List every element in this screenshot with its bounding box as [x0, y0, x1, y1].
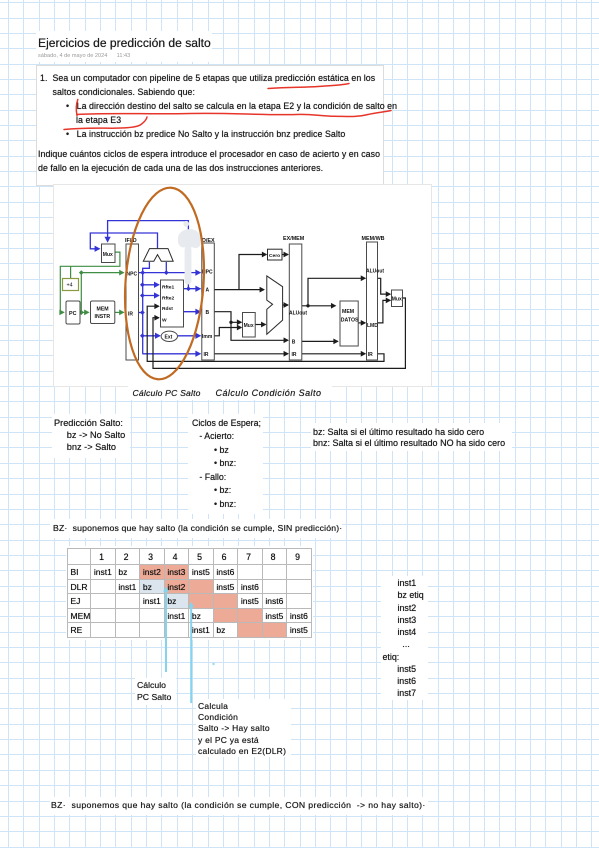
- cyan annotation line 1: [165, 589, 167, 672]
- wire black B to EXMEM B: [231, 322, 288, 340]
- svg-text:+4: +4: [67, 283, 73, 289]
- svg-text:IR: IR: [368, 352, 373, 358]
- cyan annotation line 2: [190, 605, 192, 704]
- bottom line: [51, 800, 426, 810]
- junction green at NPC branch: [79, 270, 84, 275]
- junction black ALUout: [306, 304, 309, 307]
- wire black IR feedback to Rdst: [147, 306, 384, 361]
- white box code listing: [381, 576, 428, 700]
- white box table: [66, 546, 313, 640]
- wire black LMD to mux3: [378, 300, 391, 323]
- svg-text:Ext: Ext: [165, 335, 173, 341]
- box PC: [66, 301, 80, 324]
- wire black ID/EX IR to EXMEM IR: [214, 353, 288, 355]
- pipeline register ID/EX: [202, 243, 215, 360]
- bz salta block: [313, 427, 484, 437]
- wire black ALUout bypass to MEMWB: [308, 278, 365, 306]
- red underline direccion destino ... condición de salto en: [77, 111, 391, 117]
- white box prediccion block: [52, 414, 130, 458]
- wire black mux3 out W feedback: [153, 298, 405, 368]
- svg-text:Imm: Imm: [202, 334, 213, 340]
- pipeline register EX/MEM: [289, 244, 302, 360]
- adder NPC+Imm: [143, 249, 173, 262]
- wire blue bus to Ext: [142, 335, 159, 337]
- annotation 1: [137, 680, 171, 704]
- junction blue NPC-bus: [140, 270, 145, 275]
- svg-text:ALUout: ALUout: [366, 269, 384, 275]
- mux U2 ALU operand mux: [243, 313, 256, 338]
- wire blue bus to ID/EX IR: [142, 353, 200, 355]
- svg-text:LMD: LMD: [367, 323, 378, 329]
- junction blue bus Rfte1: [140, 282, 145, 287]
- red underline la etapa E3: [64, 117, 147, 130]
- wire blue bus to Rfte2: [142, 295, 158, 297]
- mux U1 PC mux: [102, 244, 116, 263]
- box MEM DATOS: [340, 301, 358, 346]
- wire blue adder right input: [165, 262, 167, 273]
- white box table header line: [50, 519, 342, 538]
- wire blue B out: [184, 311, 201, 313]
- pipeline register MEM/WB: [367, 242, 378, 360]
- wire blue NPC out to ID/EX NPC: [139, 272, 201, 274]
- white box annotation 2: [196, 699, 291, 757]
- svg-text:MEM: MEM: [342, 309, 354, 315]
- diagram captions: [133, 388, 201, 398]
- paragraph block: [40, 71, 375, 100]
- wire green PC up to NPC: [81, 273, 123, 313]
- wire blue Ext to Imm: [178, 335, 200, 337]
- ciclos block: [192, 417, 261, 512]
- wire green PC to MEM INSTR: [80, 311, 88, 313]
- white box ciclos block: [188, 414, 263, 514]
- junction blue A line: [186, 286, 191, 291]
- svg-text:Mux: Mux: [244, 323, 254, 329]
- svg-text:Mux: Mux: [392, 297, 402, 303]
- wire black mux2 out to ALU: [255, 324, 265, 326]
- wire green MEM INSTR to IR: [115, 311, 124, 313]
- svg-text:DATOS: DATOS: [341, 318, 359, 324]
- svg-text:MEM: MEM: [97, 307, 109, 313]
- wire blue adder out to PC-mux left: [90, 233, 157, 249]
- wire black MEMWB ALUout to mux3: [378, 278, 391, 294]
- pipeline register IF/ID: [126, 244, 139, 360]
- wire black Imm to mux2: [214, 328, 241, 336]
- svg-text:INSTR: INSTR: [95, 314, 111, 320]
- box Cero: [268, 249, 283, 260]
- svg-text:MEM/WB: MEM/WB: [362, 236, 385, 242]
- svg-text:NPC: NPC: [127, 272, 138, 278]
- table header line: [53, 523, 342, 533]
- annotation 2: [198, 701, 286, 757]
- prediccion block: [54, 417, 125, 454]
- white box bottom line: [50, 797, 428, 815]
- wire green +4 stub: [70, 266, 72, 278]
- wire blue A out: [184, 288, 201, 290]
- cursor pointer ghost: [178, 221, 201, 285]
- Ext sign-extender: [161, 331, 177, 341]
- svg-text:Cero: Cero: [269, 253, 280, 259]
- white box paragraph block: [36, 65, 384, 186]
- wire black B to mux2: [214, 312, 241, 323]
- wire black EXMEM IR to MEMWB IR: [302, 353, 365, 355]
- code listing: [398, 577, 424, 651]
- register file: [161, 280, 184, 327]
- svg-text:W: W: [162, 317, 167, 323]
- white box bz-salta block: [311, 423, 512, 451]
- svg-text:A: A: [206, 288, 210, 294]
- svg-text:B: B: [206, 310, 210, 316]
- svg-text:IR: IR: [292, 352, 297, 358]
- wire blue top horizontal from A to PC-mux top: [108, 221, 189, 289]
- white box diagram captions: [128, 385, 332, 400]
- box +4: [63, 279, 79, 291]
- junction blue bus Ext: [140, 333, 145, 338]
- junction blue bus Rfte2: [140, 293, 145, 298]
- box MEM INSTR: [91, 301, 115, 324]
- junction green at PC output: [79, 310, 84, 315]
- orange ellipse annotation: [119, 185, 210, 382]
- mux U3 writeback mux: [392, 290, 403, 307]
- svg-text:EX/MEM: EX/MEM: [283, 236, 305, 242]
- wire green PC mux loop: [60, 252, 120, 312]
- svg-text:Rfte1: Rfte1: [162, 285, 175, 291]
- wire blue IR to bus: [139, 312, 143, 314]
- svg-text:IR: IR: [128, 312, 133, 318]
- wire black EXMEM B to MEM DATOS: [302, 340, 338, 342]
- svg-text:PC: PC: [69, 311, 77, 317]
- white box annotation 1: [135, 678, 176, 705]
- wire blue bus to Rfte1: [142, 284, 158, 286]
- wire black ALUout to MEM DATOS: [302, 305, 336, 307]
- wire black A to ALU and Cero: [214, 289, 264, 291]
- white box behind title: [36, 31, 212, 62]
- date line: [38, 53, 130, 59]
- svg-text:IR: IR: [204, 352, 209, 358]
- white box diagram: [53, 184, 432, 387]
- wire black Cero to EXMEM: [282, 254, 288, 256]
- ALU: [267, 276, 283, 334]
- title: [38, 36, 211, 50]
- svg-text:B: B: [292, 340, 296, 346]
- svg-text:Mux: Mux: [103, 252, 113, 258]
- TABLE: [67, 548, 312, 638]
- wire black ALU out: [283, 304, 288, 306]
- svg-text:ALUout: ALUout: [289, 311, 307, 317]
- junction blue bus IR: [140, 310, 145, 315]
- wire blue adder left input and distribution bus: [143, 262, 150, 354]
- red slash before dirección: [76, 100, 78, 116]
- svg-text:Rfte2: Rfte2: [162, 295, 175, 301]
- red underline predicción estática: [268, 84, 349, 89]
- svg-text:Rdst: Rdst: [162, 306, 173, 312]
- junction black B: [229, 321, 232, 324]
- wire black MEM DATOS to LMD: [358, 322, 365, 324]
